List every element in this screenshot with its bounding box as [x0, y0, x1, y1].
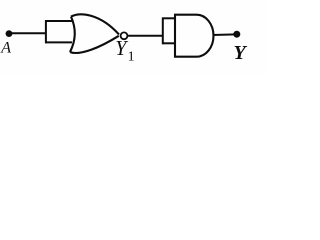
- wire AND output to node Y: [213, 33, 237, 36]
- wire: NOR top input: [45, 20, 73, 22]
- label A: [0, 39, 11, 56]
- wire: AND top input: [162, 17, 176, 19]
- svg-text:1: 1: [128, 50, 135, 65]
- NOR gate U1 body: [70, 14, 119, 53]
- AND gate U2 body: [175, 15, 214, 57]
- svg-text:A: A: [0, 39, 11, 56]
- node Y: [233, 31, 240, 38]
- wire: AND bottom input: [162, 42, 176, 44]
- wire Y1 to AND split: [127, 35, 163, 37]
- NOR gate U1 output bubble: [121, 32, 128, 39]
- wire: NOR bottom input: [45, 41, 72, 43]
- junction: AND input split vertical: [162, 18, 164, 45]
- node A: [6, 30, 13, 37]
- label Y: [234, 42, 248, 64]
- label node Y1: [115, 38, 134, 65]
- svg-text:Y: Y: [234, 42, 248, 64]
- junction: input split vertical: [45, 20, 47, 43]
- wire A to input split: [9, 32, 46, 34]
